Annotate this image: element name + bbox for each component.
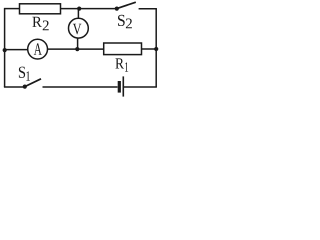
wire: right vertical — [155, 9, 157, 87]
wire: left vertical — [4, 9, 6, 87]
label R1 subscript 1 — [125, 62, 128, 71]
wire: voltmeter bottom stub — [77, 38, 79, 49]
label S2 letter S — [118, 15, 125, 26]
wire: middle R1 to right — [142, 48, 157, 50]
wire: top-left horizontal to R2 — [4, 8, 20, 10]
voltmeter V — [69, 18, 89, 38]
node: junction dot above voltmeter — [77, 7, 81, 11]
ammeter letter A — [34, 43, 42, 54]
wire: top horizontal R2 to S2 — [61, 8, 117, 10]
wire: top-right horizontal — [139, 8, 157, 10]
wire: bottom middle to battery — [43, 86, 118, 88]
wire: bottom-left horizontal — [4, 86, 25, 88]
resistor R2 — [20, 4, 61, 14]
node: junction dot on left wire — [3, 48, 7, 52]
wire: voltmeter top stub — [77, 9, 79, 19]
voltmeter letter V — [73, 24, 82, 35]
label S1 letter S — [19, 67, 25, 78]
wire: bottom right from battery — [124, 86, 157, 88]
wire: middle ammeter to R1 — [48, 48, 104, 50]
switch S2 — [115, 7, 119, 11]
node: junction dot right of R1 — [154, 47, 158, 51]
battery positive plate (long thin) — [122, 76, 124, 96]
label R2 subscript 2 — [43, 21, 49, 31]
label S2 subscript 2 — [126, 19, 132, 29]
label R1 letter R — [115, 58, 124, 68]
label R2 letter R — [32, 17, 41, 27]
wire: middle left to ammeter — [5, 49, 28, 51]
node: junction dot below voltmeter — [75, 47, 79, 51]
background — [0, 0, 162, 98]
ammeter A — [28, 39, 48, 59]
label S1 subscript 1 — [26, 71, 30, 80]
switch S1 — [23, 85, 27, 89]
battery negative plate (short thick) — [118, 81, 121, 93]
resistor R1 — [104, 43, 142, 55]
